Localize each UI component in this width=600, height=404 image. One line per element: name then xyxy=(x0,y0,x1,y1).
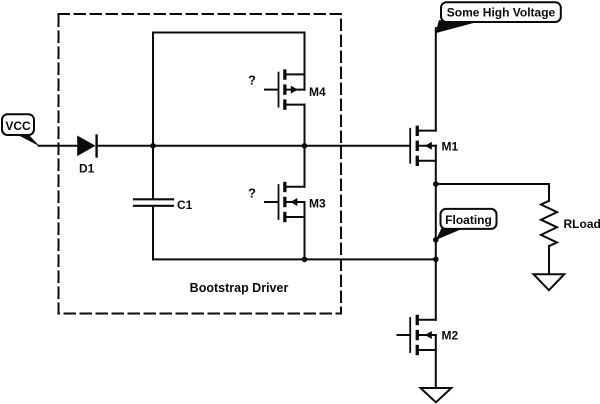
wire top rail to M4 drain xyxy=(304,33,306,90)
transistor M2 xyxy=(398,315,436,355)
svg-text:?: ? xyxy=(248,73,256,88)
diode D1 xyxy=(77,136,96,157)
wire main gate rail junction to M1 gate xyxy=(153,145,409,147)
wire vertical cap branch top xyxy=(152,33,154,199)
wire M4 source to M3 drain xyxy=(304,105,306,187)
node: bottom rail to M2 drain xyxy=(433,257,439,263)
capacitor C1 xyxy=(134,199,173,206)
svg-text:M3: M3 xyxy=(309,197,326,211)
svg-text:M1: M1 xyxy=(442,140,459,154)
wire bottom rail xyxy=(153,258,436,260)
svg-text:D1: D1 xyxy=(79,162,95,176)
label Some High Voltage xyxy=(436,2,561,33)
ground (M2) xyxy=(421,388,452,402)
wire cap bottom lead xyxy=(152,207,154,260)
transistor M3 xyxy=(265,182,305,222)
wire VCC to D1 anode xyxy=(39,145,78,147)
label VCC xyxy=(2,114,40,146)
svg-text:M2: M2 xyxy=(442,329,459,343)
wire M1 source node to RLoad xyxy=(436,183,549,185)
transistor M4 xyxy=(265,69,305,109)
wire D1 cathode to junction xyxy=(98,145,153,147)
node: Floating tail xyxy=(433,237,439,243)
wire RLoad top lead xyxy=(548,184,550,201)
svg-text:VCC: VCC xyxy=(5,119,31,133)
node: M4/M3 midpoint on gate rail xyxy=(302,143,308,149)
svg-text:Floating: Floating xyxy=(445,213,492,227)
svg-text:?: ? xyxy=(248,186,256,201)
wire M2 body/source to ground xyxy=(435,335,437,388)
svg-text:RLoad: RLoad xyxy=(564,217,600,231)
svg-text:M4: M4 xyxy=(309,85,326,99)
node: M1 source / RLoad xyxy=(433,181,439,187)
node: M3 source on bottom rail xyxy=(302,257,308,263)
dashed box Bootstrap Driver xyxy=(59,14,342,314)
node: D1/C1 junction xyxy=(150,143,156,149)
svg-text:Some High Voltage: Some High Voltage xyxy=(447,6,556,20)
svg-text:C1: C1 xyxy=(177,198,193,212)
wire M3 body/source down to bottom rail xyxy=(304,202,306,259)
resistor RLoad xyxy=(541,201,557,246)
wire top rail xyxy=(153,32,305,34)
svg-text:Bootstrap Driver: Bootstrap Driver xyxy=(190,281,289,295)
transistor M1 xyxy=(410,126,436,166)
label Floating xyxy=(436,209,497,240)
wire RLoad bottom lead xyxy=(548,246,550,274)
wire M1 body/source down through Floating node to M2 drain xyxy=(435,146,437,320)
wire Some High Voltage to M1 drain xyxy=(435,28,437,131)
ground (RLoad) xyxy=(534,274,565,290)
